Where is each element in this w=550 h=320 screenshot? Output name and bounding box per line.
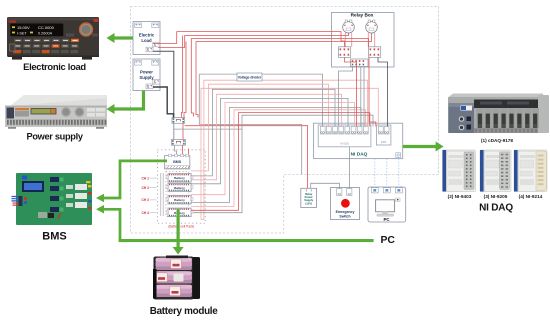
power supply box [133,59,160,91]
wire: red drop mid b [196,42,198,118]
wire: USB link PC 1 [374,159,376,188]
wire: pack sense pink pair long A [201,88,378,219]
svg-text:Battery: Battery [174,198,185,202]
wire: battery sense left vertical b [162,173,164,216]
svg-text:PC: PC [383,217,390,222]
wire: red riser right of BMS [188,149,190,155]
relay bottom connector [351,59,369,67]
wire: J1-J2 red link [182,123,184,139]
wire: outer gray tee drop [199,74,301,174]
wire: voltage divider loop 1 [191,84,329,171]
wire: relay to DAQ red [369,57,376,126]
wire: voltage divider loop 3 [191,94,342,180]
wire: red bus to relay K2 [196,33,372,42]
battery pack outer dotted boundary [157,150,205,223]
battery cell 4 [166,208,193,217]
svg-text:(3) NI-9205: (3) NI-9205 [484,194,508,199]
wire: red bus to relay socket 2 [191,39,368,47]
wire: voltage divider loop 7 [191,110,366,207]
svg-text:0.2600A: 0.2600A [38,32,53,36]
svg-text:(1) cDAQ-9178: (1) cDAQ-9178 [481,138,513,143]
wire: relay to DAQ gray 2 [363,67,365,127]
cDAQ-9178 chassis photo [448,94,549,134]
wire: emergency switch to NI DAQ gray [349,147,351,189]
svg-text:Load: Load [141,38,152,43]
connector block J2 [171,140,185,146]
wire: voltage divider loop 2 [191,89,335,176]
relay power supply box [301,188,317,207]
wire: voltage divider loop 9 [193,115,373,213]
NI DAQ box [314,123,403,158]
wire: relay to DAQ dark [378,57,388,126]
svg-text:NI DAQ: NI DAQ [351,151,368,157]
svg-text:CH 4: CH 4 [142,211,150,215]
BMS schematic box [165,154,190,169]
wire: pack sense pair U bottom [201,219,204,221]
wire: J2 to BMS gray [175,145,177,154]
outer dashed boundary (L-shaped) [131,7,439,234]
svg-text:9403: 9403 [381,141,387,144]
wire: outer gray tee horizontal [199,74,322,126]
wire: red drop to connector J1 a [182,36,183,118]
svg-text:Electric: Electric [139,33,155,38]
svg-text:Power supply: Power supply [27,131,84,141]
svg-text:Electronic load: Electronic load [23,61,86,72]
wire: relay to DAQ gray 1 [339,67,353,127]
svg-text:Power: Power [140,70,153,75]
green arrow to NI DAQ modules [403,145,436,148]
svg-text:CH 3: CH 3 [142,198,150,202]
voltage divider label box [237,73,262,81]
PC monitor glyph [376,200,395,212]
wire: J2 to BMS red [182,145,184,154]
svg-text:CH 2: CH 2 [142,186,150,190]
battery cells inner dotted boundary [166,172,189,217]
svg-text:PC: PC [381,235,396,246]
wire: voltage divider loop 5 [191,103,355,195]
relay circle K2 [366,21,378,33]
battery cell 2 [166,184,193,192]
relay socket block [339,47,351,58]
green arrow to BMS upper [104,161,167,198]
svg-text:CH 1: CH 1 [142,176,150,180]
wire: gray run from J2 [174,128,242,130]
svg-text:(4) NI-9214: (4) NI-9214 [519,194,543,199]
PC box [368,187,406,222]
svg-text:NI DAQ: NI DAQ [479,202,513,213]
svg-text:(Battery cell Pack): (Battery cell Pack) [168,225,194,229]
svg-text:Voltage divider: Voltage divider [238,75,262,79]
wire: red bus to relay K1 [177,32,345,47]
svg-text:Battery: Battery [174,176,185,180]
green arrow to BMS lower [104,209,120,240]
svg-text:Supply: Supply [139,75,154,80]
svg-text:Relay Box: Relay Box [351,13,374,18]
battery cell 3 [166,195,193,204]
wire: voltage divider loop 4 [191,98,348,183]
connector block J1 [172,118,185,124]
wire: USB link PC 2 [386,159,388,188]
green arrow to power supply [115,91,144,110]
wire: J1-J2 gray link [173,123,175,139]
wire: USB link PC 3 [398,159,400,188]
wire: relay to DAQ gray 1b [360,67,362,127]
wire: red drop mid a [191,39,193,117]
green bus to PC [119,239,374,242]
NI-9403 module photo [443,150,476,192]
NI-9205 module photo [480,150,511,192]
wire: relay ps to emergency switch gray [311,183,340,188]
svg-text:(12V): (12V) [305,201,312,205]
relay socket block [369,47,381,58]
svg-text:BMS: BMS [173,160,182,164]
wire: battery sense left vertical a [160,173,162,216]
wire: voltage divider loop 6 [191,108,361,203]
svg-text:(2) NI-9403: (2) NI-9403 [448,194,472,199]
wire: power supply black feed [153,87,174,118]
svg-text:Emergency: Emergency [336,210,355,214]
emergency stop red button [341,199,350,208]
wire: relay power supply red feed [185,126,308,189]
relay circle K1 [343,21,355,33]
wire: red drop to connector J1 b [184,42,186,118]
BMS board photo [12,173,93,225]
svg-text:Switch: Switch [339,215,350,219]
svg-text:NI 9205: NI 9205 [340,142,349,145]
svg-text:BMS: BMS [42,231,66,243]
wire: electric load gray return [153,51,174,117]
NI-9214 module photo [514,150,547,192]
relay box [332,13,395,68]
wire: red bus to relay K2 coil [158,33,349,48]
green arrow to electronic load [115,36,134,39]
green arrow to battery module [177,209,180,248]
svg-text:CC.0000: CC.0000 [38,25,55,30]
wire: voltage divider loop 8 [191,113,370,211]
electronic load instrument photo [7,17,99,57]
svg-text:Battery module: Battery module [150,306,218,317]
svg-text:Battery: Battery [174,186,185,190]
wire: electric load red feed stub [153,32,177,44]
wire: pack sense pink pair long B [204,80,368,219]
svg-text:15.00V: 15.00V [17,25,30,30]
battery cell 1 [166,174,193,183]
svg-text:I-SET: I-SET [17,32,27,36]
power supply instrument photo [5,95,107,127]
emergency switch box [331,188,360,220]
battery module photo [153,256,200,300]
electric load box [133,22,160,55]
wire: relay socket red drop 2 [345,57,357,126]
